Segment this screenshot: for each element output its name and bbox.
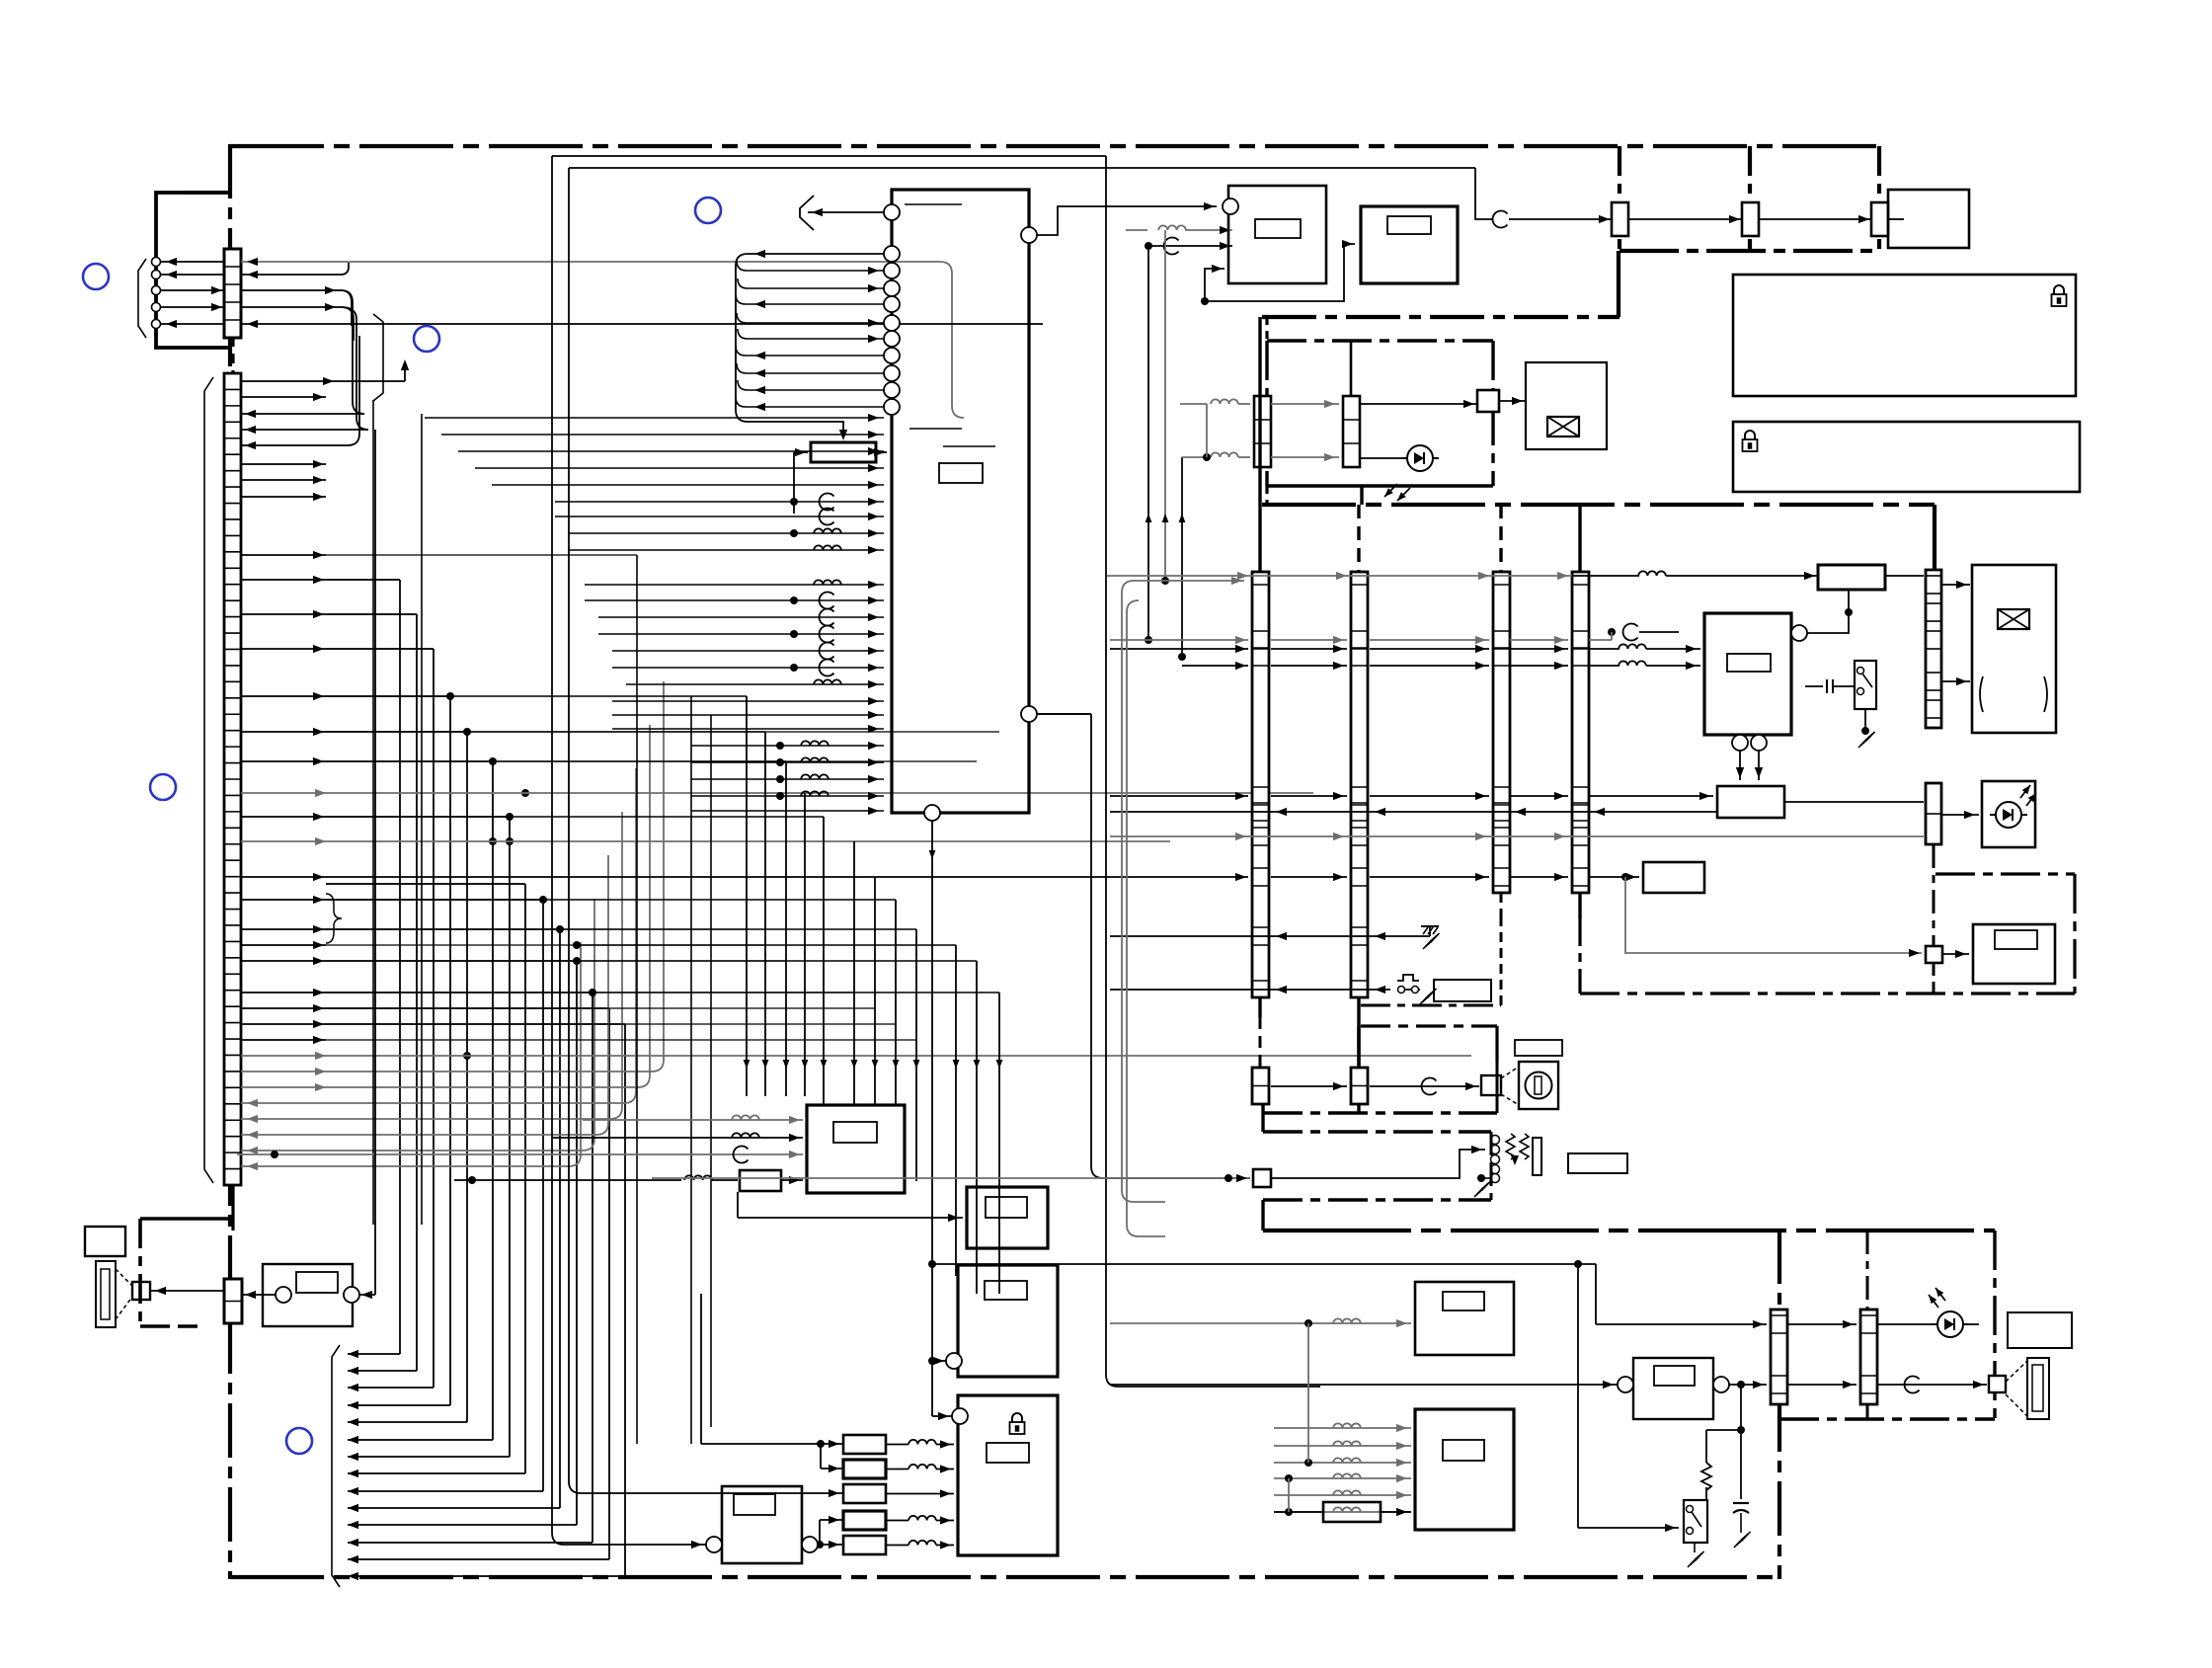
wire row 888 <box>1110 876 1248 878</box>
wire: stub verticals above connectors <box>1258 317 1261 572</box>
block: spindle motor <box>1972 565 2056 733</box>
wire CN-PWR to pad <box>150 1290 224 1292</box>
pin circle U1 bottom <box>924 805 940 821</box>
wire into B2 <box>738 1217 963 1219</box>
bracket: CN2 harness left <box>204 377 213 1183</box>
gray row to headphone <box>652 1177 1110 1179</box>
box: switch label <box>1434 980 1491 1001</box>
wires: U1 left passive rows <box>555 501 884 503</box>
wire: tuner board frame verticals <box>1618 146 1621 251</box>
block: option board 1 (locked) <box>1733 275 2076 396</box>
wire: stub above CN-K2/below <box>1357 1026 1360 1068</box>
icon: jog dial <box>1519 1062 1558 1109</box>
wire FB1-FB2 <box>1628 218 1743 220</box>
box: B3 label <box>985 1281 1027 1300</box>
capacitor mute <box>1733 1502 1749 1504</box>
frame: loader sub-board <box>1267 339 1493 342</box>
bus: down arrows entering audio board <box>744 1060 750 1069</box>
frame: LED/speaker sub-board right <box>1993 1231 1996 1419</box>
wire: phones frame right verticals <box>1490 1132 1493 1200</box>
wires into tuner pack with coils <box>1274 1427 1411 1429</box>
pin circle servo right <box>1791 625 1807 641</box>
wire gray into CN-P1 <box>1110 1177 1250 1179</box>
wires into buffers <box>817 1440 825 1448</box>
wire: loop B vertical down to tuner <box>1106 156 1320 1387</box>
capacitor switch row <box>1805 685 1823 687</box>
blue circle D <box>150 774 176 800</box>
wire: main board outline left (dash-dot) <box>228 144 232 1579</box>
wire B1 in row3 <box>237 1153 803 1155</box>
bus: verticals to audio section <box>746 696 748 1096</box>
wires: U1 lower rows with coils <box>691 745 884 747</box>
wire switch down + ground <box>1864 709 1866 731</box>
wire rows CN1 to CN2 drop verticals <box>341 290 364 414</box>
lock icon board2 <box>1745 431 1755 439</box>
box: tilt sensor <box>1973 924 2055 984</box>
frame: pickup sub dash-dot <box>1935 872 2075 875</box>
box: sled motor driver <box>1643 862 1704 893</box>
connector CN-M5 (motor) <box>1926 570 1941 728</box>
wire: tuner frame stub to mech board <box>1617 251 1620 317</box>
pad: rotary encoder <box>1481 1075 1501 1095</box>
motor symbol loading <box>1547 417 1579 437</box>
wire servo to driver <box>1807 593 1849 633</box>
label line U1 top <box>905 203 962 205</box>
ground mute switch <box>1694 1543 1696 1552</box>
connector CN-M1 (board to board) <box>1252 572 1269 997</box>
wire: key frame bottom <box>1263 1111 1497 1114</box>
connector CN-L2 <box>1343 396 1360 467</box>
inductor L-A <box>1126 229 1147 231</box>
wire: loop top B <box>569 167 1475 169</box>
wire: loader inner vertical <box>1350 341 1353 399</box>
pin circles servo bottom <box>1732 735 1748 751</box>
block: audio DAC B3 <box>958 1265 1058 1377</box>
wire resistor branch <box>1706 1429 1741 1431</box>
wire: loop top A <box>552 155 1106 157</box>
wire vertical feed regulator <box>374 430 376 1295</box>
wire CN-M5 to motor <box>1941 584 1970 586</box>
wire: pickup board divider <box>1933 844 1935 946</box>
block: EEPROM B <box>1361 206 1458 283</box>
wire: stub below CN-M4 <box>1578 893 1581 918</box>
wire RF chain to FB1 <box>1509 218 1613 220</box>
label line U1 mid2 <box>943 445 995 447</box>
wires CN2 rows to logic (arrows) <box>241 396 326 398</box>
block: optical pickup LED <box>1982 781 2035 847</box>
bus row: mech 583 to servo <box>1107 575 1572 577</box>
wire: row 657 <box>1110 648 1248 650</box>
wire CN1 pin3 to right <box>241 289 341 291</box>
wire: vertical to mute switch <box>1577 1264 1579 1528</box>
wire: left loop curves into mech rows <box>1091 714 1250 1178</box>
wire: switch feed row <box>932 1263 1596 1265</box>
wires into U1 left circles <box>748 253 884 255</box>
wire FB3 to antenna box <box>1888 218 1904 220</box>
wire filter to B1 <box>781 1179 803 1181</box>
connector CN-P1 <box>1253 1169 1271 1187</box>
bus: address/data staircase down-left <box>326 579 400 581</box>
wire row 806 into traverse <box>1110 795 1248 797</box>
wire: U1 pin to off-page bracket <box>808 211 884 213</box>
blue circle C <box>695 198 721 223</box>
wire: loop vertical A <box>552 156 652 1545</box>
wire: mech border corner to motor connector <box>1933 505 1936 570</box>
wire into reset left <box>794 451 808 453</box>
box: jog label <box>1515 1040 1562 1056</box>
bracket: signal group right of CN1 <box>373 314 383 401</box>
wire: vertical to LED row <box>1595 1264 1597 1324</box>
wire: row 674 <box>1182 665 1248 667</box>
IC U1 (system controller) <box>892 190 1029 813</box>
block: headphone amp <box>1633 1358 1713 1419</box>
wire pad to motor <box>1499 400 1526 402</box>
wire: main board outline top (dash-dot) <box>230 144 1879 148</box>
wire: divider dash-dot in sub-board <box>1866 1231 1869 1310</box>
icon: battery/speaker slot <box>96 1261 116 1327</box>
wires servo bottom to traverse box <box>1739 751 1741 780</box>
connector CN-M6 <box>1926 783 1941 844</box>
block: loading motor <box>1526 362 1607 449</box>
box: tilt label <box>1995 930 2037 949</box>
wire vertical feed buffers <box>700 1294 702 1444</box>
curly brace group mid CN2 <box>326 894 342 943</box>
wire filter to tuner <box>1381 1511 1411 1513</box>
frame: key board top dash-dot <box>1361 1024 1497 1027</box>
pin circles CN1 <box>152 258 161 267</box>
block: power amp B4 (locked) <box>958 1395 1058 1555</box>
wire U1 bottom to audio driver <box>931 821 933 1416</box>
box: B5 label <box>734 1494 775 1515</box>
wire: key frame right vertical <box>1496 1062 1499 1113</box>
wire: gray vertical to main board 2 <box>1164 230 1166 581</box>
gray return rows to CN2 (bottom group) <box>241 1071 652 1072</box>
blue circle B <box>414 326 439 352</box>
wire resistor to switch <box>1705 1487 1707 1500</box>
bracket: bottom-left bus group <box>332 1345 340 1587</box>
wire: circles bundle to DC block <box>736 395 843 437</box>
jack resistors <box>1506 1134 1515 1159</box>
wire: tuner board frame bottom <box>1619 249 1879 253</box>
wire: audio board left border stub <box>1261 1200 1264 1231</box>
wire into A pin3 <box>1205 269 1224 301</box>
wire: stub below CN-M3 (dash-dot) <box>1500 893 1503 916</box>
wire row LED <box>1596 1323 1767 1325</box>
capacitor C-RF <box>1493 211 1508 228</box>
blue circle E <box>286 1428 312 1454</box>
ferrite bead FB3 <box>1871 202 1888 236</box>
frame: speaker unit dash-dot <box>140 1217 230 1221</box>
wire reset to U1 <box>876 451 887 453</box>
label line U1 mid <box>909 428 962 430</box>
box: phones label <box>1568 1153 1627 1173</box>
wires CN2 rows inbound <box>241 413 326 415</box>
parens motor <box>1980 676 1983 712</box>
wire: mute branch vertical <box>1740 1385 1742 1499</box>
connector CN-S2 <box>1860 1310 1877 1404</box>
jack plug body <box>1533 1138 1541 1175</box>
gray loop verticals <box>1122 581 1244 593</box>
resistor R-mute <box>1701 1463 1711 1490</box>
motor symbol spindle <box>1998 609 2029 629</box>
connector CN1 (top-left) <box>224 249 241 338</box>
wire: main mech board top border <box>1262 503 1935 507</box>
wire CN-P1 to jack <box>1271 1150 1485 1178</box>
pad: loader motor <box>1477 390 1499 412</box>
wire: phones frame bottom <box>1263 1198 1491 1201</box>
box: U1 inner label <box>939 463 983 483</box>
pin circle A left <box>1223 199 1238 214</box>
buffer boxes column <box>843 1435 886 1454</box>
box: B1 label <box>833 1122 877 1143</box>
wire with up arrow to bracket <box>241 380 405 382</box>
junction dots U1 lower <box>776 742 784 750</box>
capacitor key row <box>1422 1078 1437 1095</box>
connector CN-PWR <box>224 1279 242 1323</box>
wire: vertical gray left of loader <box>1206 404 1208 457</box>
wire row 822 out of traverse <box>1110 811 1717 813</box>
wire amp in <box>1110 1384 1618 1386</box>
pad: speaker out <box>1989 1376 2006 1392</box>
wire: stubs below CN-M1/M2 <box>1258 997 1261 1017</box>
block: regulator <box>263 1264 353 1326</box>
inductor loader row1 <box>1180 403 1207 405</box>
gray bus rows from CN2 <box>241 792 1313 794</box>
connector CN-K1 <box>1252 1068 1269 1104</box>
wire FB2-FB3 <box>1759 218 1872 220</box>
box: mic label <box>1443 1292 1484 1311</box>
wire CN-PWR right to reg <box>242 1294 276 1296</box>
connector CN-M4 <box>1572 572 1589 893</box>
bracket: CN1 harness left <box>138 259 146 338</box>
wire CN1 pin2 from right <box>241 274 341 276</box>
capacitor row 640 <box>1623 623 1638 640</box>
ground push switch <box>1420 995 1429 1005</box>
junction dots U1 rows <box>790 498 798 506</box>
wire B1 in row4 <box>454 1179 681 1181</box>
block: line amp B5 <box>722 1486 802 1563</box>
box: B2 label <box>986 1197 1027 1218</box>
wires CN1 left pins <box>161 261 224 263</box>
ferrite bead FB2 <box>1742 202 1759 236</box>
wires buffers to B4 <box>886 1444 908 1446</box>
icon: speaker <box>2027 1358 2049 1419</box>
wire CN1 pin4 to right <box>241 306 341 308</box>
wire regulator in from right <box>359 1294 375 1296</box>
wire jack ground <box>1477 1174 1485 1182</box>
LED: power indicator <box>1937 1311 1963 1337</box>
capacitor speaker row <box>1905 1377 1920 1393</box>
wire to servo driver box <box>1666 575 1818 577</box>
pin circle U1 right bottom <box>1021 706 1037 722</box>
cap to ground row 948 <box>1429 926 1431 936</box>
jack arrow <box>1511 1155 1519 1165</box>
wire: loader frame stubs to borders <box>1265 317 1268 341</box>
wire: loop vertical B <box>569 168 581 1493</box>
block: option board 2 (locked) <box>1733 422 2080 492</box>
switch: detect SW <box>1855 661 1876 709</box>
wire row 1002 return <box>1110 989 1390 991</box>
wire: audio board top border <box>1263 1229 1995 1232</box>
inductor mech row 674 <box>1619 661 1646 666</box>
box: servo IC label <box>1727 654 1771 672</box>
wire into mic amp <box>1110 1322 1411 1324</box>
wire: U1 right bottom long vertical <box>1037 713 1091 715</box>
wire: dash-dot joint under CN-M3 <box>1361 1004 1501 1007</box>
junction dots grid <box>521 789 529 797</box>
block: display/key control A <box>1228 186 1326 283</box>
bus: logic grid verticals light <box>372 400 374 1225</box>
wire loader led <box>1360 457 1407 459</box>
headphone jack contacts <box>1491 1136 1500 1145</box>
wire row 847 traverse to CN-M6 <box>1784 801 1924 803</box>
wire CN-M6 to LED <box>1941 814 1979 816</box>
connector CN-M3 <box>1493 572 1510 893</box>
wire row 847 <box>1110 835 1924 837</box>
wire loader rows <box>1271 403 1339 405</box>
box: regulator label <box>296 1272 338 1293</box>
wire: gray vertical to main board 1 <box>1147 246 1149 640</box>
wire: main board outline bottom (dash-dot) <box>230 1575 1781 1579</box>
box: amp label <box>1654 1366 1695 1386</box>
box: tuner input filter <box>1323 1502 1381 1522</box>
inductor mech row 657 <box>1619 644 1646 649</box>
block: DSP B1 <box>807 1105 905 1193</box>
wire into B5 <box>652 1544 706 1546</box>
pin circles B5 <box>706 1537 722 1552</box>
junction wire A-B <box>1201 297 1209 305</box>
off-page bracket <box>800 196 814 230</box>
block: tuner pack <box>1415 1409 1514 1530</box>
wire B1 in row2 <box>553 1137 803 1139</box>
box: power in label <box>85 1227 125 1256</box>
wire into B4 circle <box>932 1415 952 1417</box>
wire: display board border <box>1262 315 1619 319</box>
connector CN-M2 <box>1351 572 1368 997</box>
block: RF amp / servo IC <box>1704 613 1791 735</box>
lock icon board1 <box>2054 285 2064 294</box>
wire CN1 pin5 from right <box>241 323 1043 325</box>
box: B1 input filter <box>740 1170 781 1191</box>
LED: loader sensor <box>1407 445 1433 471</box>
frame: top-left external unit (dash-dot) <box>156 193 232 348</box>
wire key row <box>1271 1085 1347 1087</box>
connector CN2 (left main, tall) <box>224 373 241 1185</box>
ferrite bead FB1 <box>1612 202 1628 236</box>
bus: logic grid horizontals <box>326 554 637 556</box>
wire B1 in row1 <box>583 1119 803 1121</box>
wire: CN2 stub top <box>231 337 234 373</box>
box: LED label <box>2008 1312 2072 1348</box>
wire U1 right bottom out <box>1037 713 1091 715</box>
wire loader to motor sq <box>1360 403 1478 405</box>
box: servo driver <box>1818 565 1885 590</box>
pin circle U1 top-left <box>884 204 900 220</box>
wire row 948 return <box>1110 935 1430 937</box>
connector CN-K2 <box>1351 1068 1368 1104</box>
wire: vertical to main board 3 <box>1181 457 1183 657</box>
pad: speaker terminal <box>132 1282 150 1300</box>
wire U1 to control box A <box>1037 206 1217 235</box>
wire from sled box down to sub frame <box>1625 877 1922 953</box>
push switch <box>1397 989 1420 991</box>
pin circle U1 right top <box>1021 227 1037 243</box>
box: B4 label <box>987 1443 1029 1463</box>
switch: mute SW <box>1684 1500 1707 1543</box>
wire: CN2 stub bottom to frame <box>231 1185 234 1231</box>
bus row 888 full width <box>241 876 1110 878</box>
wire: row 648 gray <box>1110 639 1248 641</box>
wire: phones frame top <box>1263 1130 1491 1133</box>
lock icon B4 <box>1012 1413 1022 1422</box>
inductor servo power <box>1638 571 1666 576</box>
block: mic amp <box>1415 1282 1514 1355</box>
block: reset IC <box>811 442 876 462</box>
capacitor C-A <box>1145 242 1152 250</box>
wire verticals tuner feed <box>1307 1323 1309 1463</box>
pin circles regulator <box>276 1287 291 1303</box>
blue circle A <box>83 264 109 289</box>
box: A inner label <box>1255 219 1301 238</box>
pin circle B3 <box>946 1353 962 1369</box>
wire CN-M7 to tilt box <box>1942 953 1969 955</box>
pin circles amp <box>1618 1377 1633 1392</box>
bus rows continue to audio verticals <box>450 695 747 697</box>
inductor loader row2 <box>1182 456 1207 458</box>
connector CN-S1 <box>1771 1310 1787 1404</box>
block: decoder B2 <box>967 1187 1048 1248</box>
connector CN-L1 <box>1254 396 1271 467</box>
wires: U1 left plain rows <box>425 417 884 419</box>
pin circles U1 left column <box>884 246 900 262</box>
wire: power board outline right (dash-dot) <box>1777 1230 1781 1579</box>
box: B inner label <box>1387 216 1431 234</box>
wire servo driver to CN-M5 <box>1885 575 1924 577</box>
wire: top loop down to RF chain <box>1475 168 1493 219</box>
box: tuner label <box>1443 1440 1484 1461</box>
pin circle B4 <box>952 1408 968 1424</box>
wire into B3 circle <box>932 1360 946 1362</box>
wire CN1 pin1 to right (gray) <box>241 261 940 263</box>
wire: traverse box row <box>1717 786 1784 818</box>
LED pickup <box>1996 802 2021 828</box>
box: antenna terminal <box>1888 190 1969 248</box>
wire row speaker <box>1737 1381 1745 1389</box>
connector CN-M7 <box>1926 946 1942 963</box>
